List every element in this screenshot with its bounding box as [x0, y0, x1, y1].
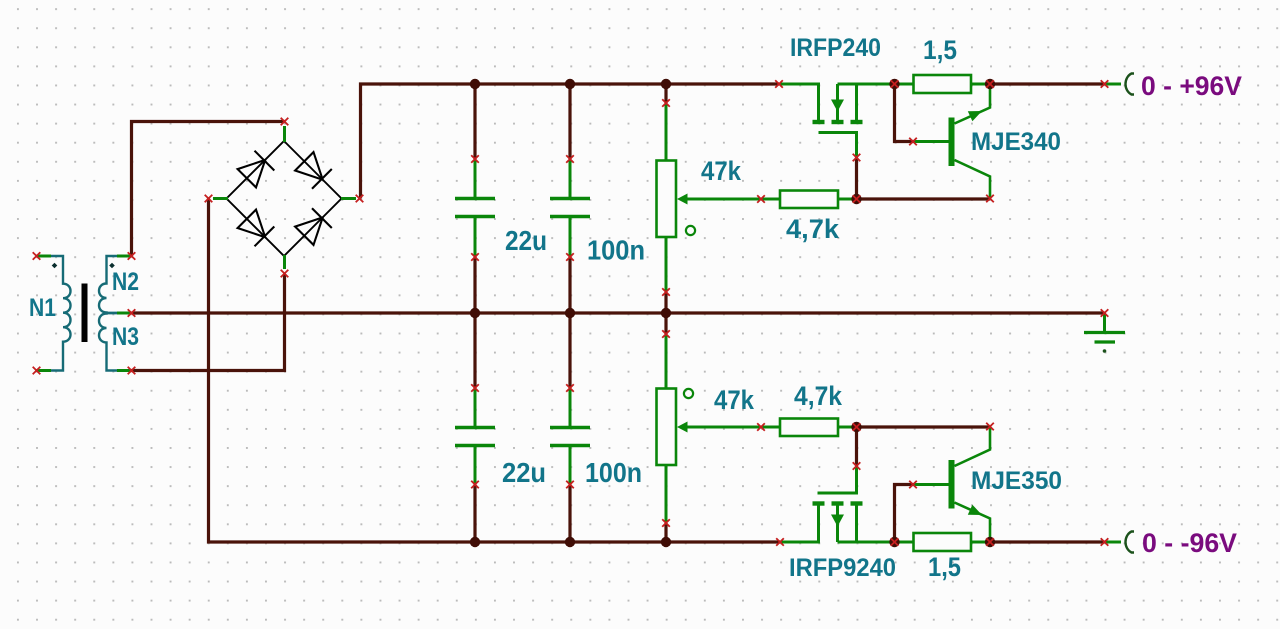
junction dots top rail — [470, 79, 995, 89]
MOSFET Q2 channel bars — [813, 501, 863, 505]
pin connection markers transformer — [33, 252, 136, 374]
transformer TR1 primary winding N1 — [50, 256, 71, 371]
svg-text:MJE340: MJE340 — [971, 128, 1061, 156]
capacitor C3 22u leads — [474, 388, 477, 485]
MOSFET Q1 IRFP240 — [779, 84, 895, 158]
svg-text:N3: N3 — [112, 323, 139, 351]
pin connection markers capacitors and pots bottom — [471, 330, 670, 527]
wire: pot P2 bottom stub — [664, 523, 667, 542]
pin connection markers bridge — [205, 118, 364, 278]
capacitor C1 22u plates — [455, 199, 495, 217]
bridge pin stubs — [213, 126, 356, 269]
svg-text:1,5: 1,5 — [923, 35, 957, 65]
transformer pin stubs — [37, 256, 132, 371]
potentiometer P1 wiper arrow — [677, 194, 761, 205]
pin connection markers outputs and ground — [1101, 80, 1109, 546]
wire: wiper node to MJE350 emitter — [857, 425, 991, 428]
svg-text:4,7k: 4,7k — [786, 214, 839, 244]
transistor Q3 MJE340 — [913, 84, 990, 199]
svg-text:IRFP240: IRFP240 — [790, 34, 881, 62]
capacitor C3 22u plates — [455, 428, 495, 446]
wire: C3 bottom stub — [473, 485, 476, 543]
capacitor C2 100n plates — [550, 199, 590, 217]
wire: MJE340 base drive — [895, 84, 914, 142]
transformer polarity dot primary — [52, 263, 58, 269]
wire: C2 top stub — [568, 84, 571, 159]
wire: C1 bottom stub — [473, 257, 476, 313]
svg-text:4,7k: 4,7k — [794, 381, 842, 411]
wire: bottom rail from R 1,5 to output — [990, 540, 1105, 543]
wire: wiper node to MJE340 collector — [857, 197, 991, 200]
wire: 0V center rail from transformer tap to ground — [132, 311, 1105, 314]
potentiometer P2 index circle — [684, 389, 693, 398]
potentiometer P2 wiper arrow — [677, 422, 761, 433]
ground symbol — [1084, 313, 1125, 353]
MOSFET Q1 channel bars — [813, 120, 863, 124]
svg-text:N1: N1 — [29, 294, 56, 322]
output port 0 - -96V — [1105, 532, 1135, 553]
wire: pot P1 top stub — [664, 84, 667, 103]
potentiometer P1 index circle — [686, 226, 695, 235]
wire: pot P2 top stub — [664, 313, 667, 334]
capacitor C1 22u leads — [474, 159, 477, 257]
pin connection markers capacitors and pots top — [471, 99, 670, 296]
svg-text:N2: N2 — [112, 268, 139, 296]
wire: top positive rail from R 1,5 to output — [990, 82, 1105, 85]
resistor R2 4,7k — [761, 419, 857, 437]
transformer TR1 secondary winding N2 — [99, 256, 118, 313]
svg-text:100n: 100n — [587, 235, 645, 266]
wire: AC1 from N2 top to bridge top — [132, 122, 285, 257]
diode D3 (bottom-left edge) — [238, 210, 275, 247]
resistor R1 4,7k — [761, 191, 857, 209]
MOSFET Q2 IRFP9240 — [780, 466, 895, 542]
diode D1 (top-left edge) — [238, 151, 275, 188]
MOSFET Q2 substrate arrow — [831, 515, 844, 527]
svg-text:IRFP9240: IRFP9240 — [789, 554, 896, 582]
junction dot wiper node top — [851, 194, 861, 204]
wire: C4 top stub — [568, 313, 571, 388]
transformer polarity dot secondary — [109, 263, 115, 269]
capacitor C2 100n leads — [569, 159, 572, 257]
svg-text:1,5: 1,5 — [928, 552, 961, 582]
wire: pot P1 bottom stub — [664, 292, 667, 313]
wire: negative rail from bridge left down and across bottom — [209, 199, 781, 543]
potentiometer P2 47k body — [657, 334, 677, 523]
svg-text:0 - -96V: 0 - -96V — [1142, 528, 1237, 558]
wire: MJE350 base drive — [895, 485, 914, 543]
diode D2 (top-right edge) — [295, 152, 332, 189]
wire: C3 top stub — [473, 313, 476, 388]
pin connection markers MOSFET and resistor nets bottom — [757, 423, 994, 546]
diode D4 (bottom-right edge) — [295, 208, 332, 245]
pin connection markers MOSFET and resistor nets top — [757, 80, 994, 203]
resistor R4 1,5 — [895, 533, 991, 551]
wire: AC2 from N3 bottom to bridge bottom — [132, 274, 285, 371]
svg-text:0 - +96V: 0 - +96V — [1141, 71, 1242, 101]
wire: C1 top stub — [473, 84, 476, 159]
svg-text:22u: 22u — [505, 225, 547, 256]
svg-text:47k: 47k — [701, 156, 742, 186]
junction dots center rail — [470, 308, 671, 318]
wire: C2 bottom stub — [568, 257, 571, 313]
junction dot wiper node bottom — [851, 422, 861, 432]
capacitor C4 100n leads — [569, 388, 572, 485]
wire: C4 bottom stub — [568, 485, 571, 543]
wire: IRFP240 gate drop to wiper node — [855, 158, 858, 200]
svg-text:100n: 100n — [585, 457, 642, 488]
output port 0 - +96V — [1105, 74, 1135, 95]
wire: top positive rail from bridge to MOSFET — [361, 84, 780, 199]
wire: IRFP9240 gate rise to wiper node — [855, 427, 858, 466]
transistor Q4 MJE350 — [913, 427, 990, 542]
transformer TR1 core — [82, 284, 88, 343]
svg-text:MJE350: MJE350 — [971, 467, 1062, 495]
svg-text:22u: 22u — [502, 457, 546, 488]
junction dots bottom rail — [470, 537, 995, 547]
resistor R3 1,5 — [895, 75, 991, 93]
potentiometer P1 47k body — [657, 103, 677, 292]
capacitor C4 100n plates — [550, 428, 590, 446]
svg-text:47k: 47k — [714, 385, 755, 415]
transformer TR1 secondary winding N3 — [99, 313, 118, 371]
bridge rectifier diamond outline — [227, 141, 342, 256]
MOSFET Q1 substrate arrow — [831, 100, 844, 112]
